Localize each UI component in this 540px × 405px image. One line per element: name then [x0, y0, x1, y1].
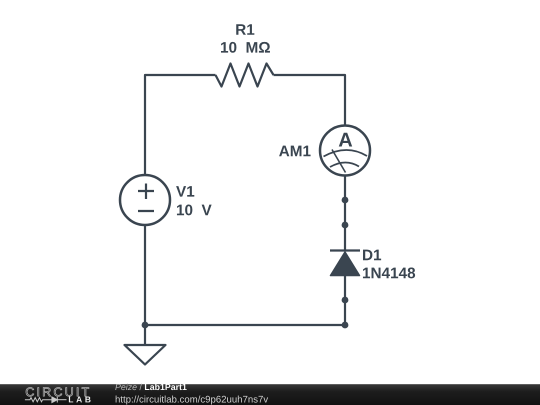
- label AM1: [279, 146, 310, 157]
- footer bar: [0, 384, 540, 405]
- CircuitLab logo circuit glyph: [25, 397, 67, 403]
- wire R1 right to AM1 top: [274, 75, 346, 126]
- CircuitLab logo text LAB: [69, 397, 91, 403]
- value 10 V: [177, 205, 212, 216]
- wire AM1 bottom to D1: [344, 176, 346, 251]
- CircuitLab logo text CIRCUIT: [26, 387, 89, 396]
- wire D1 to bottom node: [344, 275, 346, 325]
- label V1: [176, 186, 194, 197]
- label R1: [236, 24, 254, 35]
- voltage source V1: [120, 175, 170, 225]
- value 1N4148: [363, 268, 415, 279]
- bottom wire: [145, 324, 345, 326]
- label D1: [363, 250, 381, 261]
- footer url: [116, 396, 268, 405]
- footer caption Peize / Lab1Part1: [115, 384, 136, 390]
- wire V1 bottom to ground node: [144, 225, 146, 325]
- resistor R1: [216, 64, 274, 87]
- node dots: [142, 197, 349, 329]
- diode D1: [330, 251, 360, 276]
- ground: [125, 325, 166, 365]
- value 10 MΩ: [221, 42, 270, 53]
- wire V1 top to R1 left: [145, 75, 216, 176]
- ammeter AM1: [320, 126, 370, 176]
